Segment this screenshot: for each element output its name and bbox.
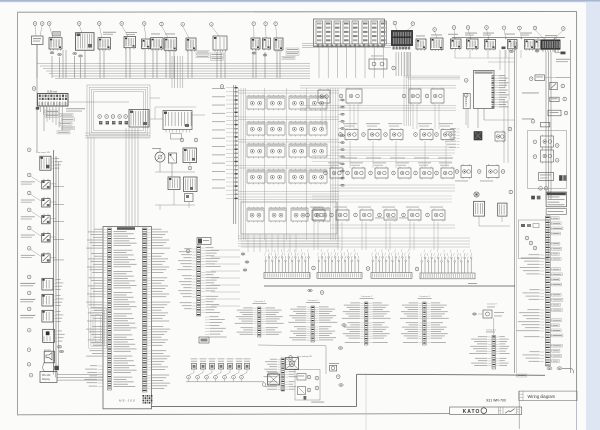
node FW (392, 66, 396, 70)
node R02 (402, 94, 406, 98)
wire washer leads (155, 162, 195, 210)
svg-text:Speaker: Speaker (44, 348, 51, 351)
node R01 (339, 94, 343, 98)
node RT3 (563, 97, 567, 101)
ECU U1 header (117, 227, 135, 230)
node 34 (252, 22, 256, 26)
node L2 (27, 173, 31, 177)
node R34 (402, 213, 406, 217)
connector 7 label (487, 303, 497, 308)
washer motor block (183, 148, 197, 163)
node 42 (47, 22, 51, 26)
node R20 (324, 171, 328, 175)
rear working SW (286, 355, 312, 370)
page bottom edge line (18, 414, 450, 415)
timer unit (539, 173, 554, 181)
relay K3 (289, 95, 307, 111)
panel divider left (515, 40, 517, 373)
connector 2 blank title (486, 329, 496, 333)
lower SW node (307, 375, 311, 379)
node RF1 (539, 187, 543, 191)
node 25 (485, 26, 489, 30)
switch abs SW (522, 82, 557, 93)
relay KB (495, 131, 505, 143)
ECU bottom-left stubs (84, 365, 102, 386)
connector CN-b (58, 53, 62, 55)
node B5 (223, 369, 230, 382)
node 41 (77, 22, 81, 26)
node R03 (425, 94, 429, 98)
connector list CL4 (400, 295, 449, 345)
node 38 (142, 22, 146, 26)
switch S12 rear fluid (416, 36, 426, 51)
switch S6 (164, 34, 177, 52)
relay box KW (541, 122, 550, 127)
switch S26 Boom lower SW (20, 278, 63, 290)
sound unit U2 (474, 70, 509, 108)
node BW1 (336, 375, 340, 379)
relay KR34 (406, 207, 421, 222)
matrix right oval connectors (338, 99, 344, 186)
fusible link box FL1 (314, 19, 387, 47)
node L5 (27, 226, 31, 230)
small box below washers (185, 194, 194, 202)
sensor B2 Fuel (200, 358, 207, 369)
leader lines top row (35, 25, 563, 40)
relay K16 (309, 169, 327, 185)
wire CL7 riser (493, 318, 495, 336)
wire below combs (264, 283, 515, 286)
node RT5 (531, 120, 535, 124)
node L1 (27, 148, 31, 152)
ECU U1 right pin strip (142, 228, 147, 392)
node M3 (188, 166, 192, 170)
node R32 (354, 213, 358, 217)
switch S17 (505, 34, 517, 51)
relay KR30 (310, 207, 325, 222)
tank unit (262, 372, 279, 386)
node R25 (435, 171, 439, 175)
page top edge shadow (0, 0, 600, 2)
wire strip bottom to frame (562, 368, 573, 373)
node 37 (160, 22, 164, 26)
wire row0 horizontal bundle (300, 86, 456, 130)
svg-text:Connector 2: Connector 2 (361, 295, 373, 298)
power block B1 (546, 192, 566, 207)
relay K15 (289, 169, 307, 185)
wire sensors bus (186, 381, 264, 383)
relay KR11 (366, 123, 381, 141)
node 22 (533, 26, 537, 30)
relay KR35 (430, 207, 445, 222)
connector list CL2 (288, 299, 337, 342)
node 39 (120, 22, 124, 26)
label MS-100 (119, 398, 136, 402)
node RT1 (529, 77, 533, 81)
node 35 (210, 23, 214, 27)
front wiper relay KFW (369, 56, 387, 70)
node RE2 (533, 155, 537, 159)
relay KR24 (418, 162, 433, 179)
comp bt2 (298, 387, 306, 395)
node 28 (433, 28, 437, 32)
node SU2 (464, 94, 468, 98)
node RC3 (501, 170, 505, 174)
node B4 (214, 369, 221, 382)
wire row3 to combs drops (314, 222, 438, 250)
svg-text:Connector 5: Connector 5 (419, 295, 431, 298)
wire sound unit leads (466, 50, 514, 128)
relay K7 (289, 121, 307, 137)
ground G6 (308, 289, 312, 291)
label mech4 (311, 401, 324, 404)
relay KD (487, 164, 500, 179)
wire bundle center-top vertical (172, 56, 183, 88)
svg-text:931 WR-700: 931 WR-700 (486, 398, 506, 402)
wire top-right bus (452, 37, 565, 39)
sensor B3 Oil (209, 358, 216, 369)
relay K20 (313, 207, 330, 223)
node G6b (320, 291, 324, 295)
node R13 (414, 133, 418, 137)
pump comp 2 (498, 203, 507, 216)
wire bottom long B (152, 405, 357, 407)
switch S27 Boom raise SW (20, 294, 63, 306)
node R35 (426, 213, 430, 217)
matrix left pin ticks (226, 87, 238, 199)
ECU left labels (86, 229, 107, 357)
relay K18 (269, 207, 286, 223)
wire strip2 leads (211, 250, 240, 306)
ECU internal text (114, 231, 137, 387)
fuel pump FP (474, 192, 485, 216)
node 43 (40, 22, 44, 26)
node 7 (186, 249, 190, 253)
switch S4 (142, 39, 151, 50)
switch S10 (263, 38, 271, 51)
connector CN-e (252, 52, 256, 54)
node 23 (518, 26, 522, 30)
connector comb CB4 (420, 250, 475, 279)
ECU U1 left pin strip (107, 228, 111, 390)
connector CN-c (73, 52, 77, 54)
switch S14 (448, 34, 461, 50)
ECU right labels (148, 229, 171, 389)
switch S20 Front wiper SW (36, 151, 62, 170)
wire fuse outputs (41, 106, 63, 130)
connector CN-k (54, 366, 58, 370)
label chips left cluster (45, 110, 59, 117)
horn relay KH (550, 97, 559, 101)
relay K8 (309, 121, 327, 137)
wire bundle under fusible links (302, 44, 391, 79)
node M2 (194, 138, 198, 142)
relay KR12 (388, 123, 403, 141)
wire fuse long drop (44, 106, 47, 131)
wire horizontal bundle upper (37, 64, 310, 79)
switch S3 (124, 32, 137, 49)
power label box B2 (546, 209, 566, 215)
sub box outline (528, 131, 567, 189)
node L6 (27, 247, 31, 251)
brake lamp comp (548, 110, 561, 116)
relay K9 (247, 143, 265, 159)
connector comb CB2 (317, 249, 362, 278)
wire bottom long A (357, 374, 545, 375)
node B6 (232, 369, 239, 382)
relay K12 (309, 143, 327, 159)
title block (450, 391, 577, 429)
oval CN2c (243, 269, 247, 271)
svg-text:Connector 7: Connector 7 (487, 303, 497, 306)
relay KR21 (350, 162, 365, 179)
relay K0 block (129, 110, 149, 128)
label rows under KC (455, 180, 493, 183)
relay KR20 (328, 162, 343, 179)
relay KF (541, 149, 554, 164)
relay KR23 (396, 162, 411, 179)
node R22 (369, 171, 373, 175)
connector CN-f (263, 54, 267, 56)
sensor B7 Lamp (244, 358, 251, 369)
node RT4 (564, 111, 568, 115)
relay K10 (267, 143, 285, 159)
node 27 (452, 26, 456, 30)
node R30 (306, 213, 310, 217)
node RE4 (555, 159, 559, 163)
relay KR31 (334, 207, 349, 222)
connector list CL1 (235, 300, 284, 337)
wire fuel pump (479, 216, 510, 226)
node FP1 (509, 190, 513, 194)
ground G3 (199, 337, 209, 343)
node 30 (393, 21, 397, 25)
sensor B5 Water (227, 358, 234, 369)
LP washer block 1 (168, 177, 180, 190)
matrix routing wires (238, 88, 339, 246)
connector list CL3 (342, 295, 391, 345)
node RF2 (544, 187, 548, 191)
svg-text:Connector 2: Connector 2 (486, 329, 496, 332)
label rows relay row3 top (375, 217, 408, 220)
switch S21 Working lamp SW (21, 176, 64, 189)
relay K4 (309, 95, 327, 111)
sensor B6 Press (236, 358, 243, 369)
CN9 left labels (517, 254, 544, 361)
relay KC (461, 164, 472, 179)
ground G7 (339, 384, 343, 386)
node L12 (27, 363, 31, 367)
controller box U3 (463, 94, 470, 109)
relay KR13 (418, 123, 433, 141)
node B1 (187, 369, 194, 382)
ground G5 (557, 367, 562, 370)
label W/L relay (522, 118, 534, 121)
switch S15 (465, 33, 478, 51)
node 14b (118, 115, 122, 119)
node BW3 (315, 386, 319, 390)
node 13b (124, 115, 128, 119)
LP washer block 2 (184, 177, 198, 192)
lamp unit L+R (32, 36, 44, 60)
ground GC2 (338, 347, 342, 349)
connector comb CB1 (264, 249, 310, 278)
wire left column bus (37, 45, 59, 373)
node B2 (196, 369, 203, 382)
svg-text:Rear working SW: Rear working SW (297, 355, 312, 358)
label chips fuse outputs (57, 114, 75, 134)
ground G1 (57, 346, 61, 348)
relay K5 (247, 121, 265, 137)
node L11 (27, 348, 31, 352)
node RT2 (561, 84, 565, 88)
node RE1 (533, 140, 537, 144)
wire bundle cluster-left (85, 133, 150, 138)
wire lists bottom link (258, 345, 326, 374)
switch S28 Arm out SW (20, 310, 63, 322)
node RE3 (555, 144, 559, 148)
switch S23 Horn SW (21, 211, 64, 223)
switch S1 (49, 32, 62, 51)
node SU1 (464, 79, 468, 83)
relay K11 (289, 143, 307, 159)
node L9 (27, 307, 31, 311)
turn relay KT (535, 75, 570, 81)
wire mid rows extra runs (312, 156, 452, 203)
relay K1 (247, 95, 265, 111)
wire routing loops (87, 85, 150, 137)
connector CN-i (535, 50, 539, 52)
oil pressure unit (169, 153, 177, 163)
wire drops from top row (37, 48, 280, 78)
switch block S8 (213, 36, 227, 52)
relay KR10 (343, 123, 358, 141)
node CB1 (312, 266, 316, 270)
relay K2 (267, 95, 285, 111)
sub box 2 (519, 220, 549, 259)
connector CN2 strip (197, 246, 201, 316)
node CB3 (415, 267, 419, 271)
relay bottom row outline (241, 202, 337, 234)
label chip near strip bottom (517, 374, 527, 377)
relay K13 (247, 169, 265, 185)
switch S29 Swing lock SW (43, 329, 65, 342)
node 24 (502, 26, 506, 30)
node RC1 (455, 170, 459, 174)
switch S11 (274, 38, 283, 52)
connector list CL7 lower (469, 336, 509, 370)
node R14 (435, 133, 439, 137)
node R31 (330, 213, 334, 217)
svg-text:MS-100: MS-100 (42, 374, 51, 377)
panel divider right (569, 40, 571, 373)
svg-text:MS-100: MS-100 (119, 398, 136, 402)
connector pads power (531, 196, 540, 200)
ground G4 (547, 367, 552, 370)
wire hazard drops (546, 52, 551, 200)
working lamp comp (329, 363, 339, 371)
switch S24 Safety lever SW (21, 230, 64, 243)
relay K6 (267, 121, 285, 137)
node L13 (29, 373, 33, 377)
relay K17 (247, 207, 264, 223)
wire starter drops (396, 52, 460, 79)
connector CN2 right labels (201, 247, 221, 313)
label arrows fuse (66, 108, 85, 111)
relay KE (541, 135, 554, 149)
label chips right of S11 (282, 48, 299, 59)
node L4 (27, 208, 31, 212)
connector CN-g (502, 47, 506, 50)
node 36 (181, 23, 185, 27)
wire loop to relay (68, 98, 160, 102)
svg-text:Connector 2: Connector 2 (254, 300, 266, 303)
node 11 (32, 87, 36, 91)
switch S2 swing emergency (98, 32, 116, 51)
row0 relays (318, 88, 444, 105)
label rows between relays (342, 157, 453, 160)
wire bundle display to ECU (54, 372, 104, 380)
node 15 (111, 115, 115, 119)
relay KR32 (358, 207, 373, 222)
connector 7 comp (473, 310, 505, 318)
wire bottom vertical (357, 374, 366, 430)
svg-text:Connector 2: Connector 2 (308, 299, 320, 302)
wire right rows interconnect (330, 141, 455, 228)
svg-text:KATO: KATO (463, 409, 481, 415)
page right margin (586, 2, 600, 430)
connector dark pair (559, 175, 567, 181)
node RC2 (477, 170, 481, 174)
node L8 (27, 291, 31, 295)
central bus pair (233, 85, 236, 224)
node R12 (384, 133, 388, 137)
node RB3 (533, 246, 537, 250)
wire loops left of ECU (89, 308, 107, 348)
motor M (wiper motor) (152, 148, 165, 162)
node R21 (346, 171, 350, 175)
svg-text:Wiring diagram: Wiring diagram (528, 394, 556, 399)
connector block CN1 (76, 33, 95, 51)
node R23 (392, 171, 396, 175)
matrix left label chips (212, 88, 225, 189)
sensor B1 Temp (191, 358, 198, 369)
node L7 (27, 275, 31, 279)
relay KR22 (373, 162, 388, 179)
CN9 right label boxes (550, 217, 563, 363)
switch S9 (251, 38, 260, 51)
wire comb feeders (241, 238, 470, 247)
node 31 (220, 85, 224, 89)
wire speaker hook (43, 363, 54, 372)
connector strip CN9 (545, 216, 550, 366)
relay KA dark (445, 128, 482, 147)
ground G2 (59, 350, 63, 352)
node 33 (264, 22, 268, 26)
connector CN2 head (197, 238, 211, 245)
relay KR25 (439, 162, 454, 179)
connector CN2 lower rows (205, 316, 227, 337)
node L10 (27, 328, 31, 332)
node 21 (562, 27, 566, 31)
node L3 (27, 191, 31, 195)
relay KR14 (439, 123, 454, 141)
switch S13 (431, 35, 444, 52)
label rows right margin (556, 59, 570, 62)
node R11 (362, 133, 366, 137)
node BW0 (289, 356, 293, 360)
node 17 (98, 115, 102, 119)
